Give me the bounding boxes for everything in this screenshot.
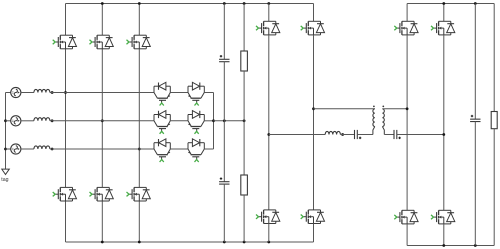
node source B common — [4, 119, 7, 122]
wire between bidirectional switches C — [170, 148, 188, 150]
mosfet primary top 2 — [301, 21, 325, 35]
wire secondary leg 1 upper — [406, 4, 408, 22]
mosfet primary bottom 2 — [301, 210, 325, 224]
wire rectifier leg A upper — [65, 4, 67, 36]
AC source VB — [11, 116, 21, 126]
wire phase B to switch cell — [50, 120, 154, 122]
wire AC common bus — [5, 93, 7, 170]
wire rectifier leg B upper — [101, 4, 103, 36]
mosfet secondary bottom 1 — [394, 210, 418, 224]
wire secondary leg 1 middle — [406, 35, 408, 210]
mosfet secondary top 1 — [394, 21, 418, 35]
inductor LA — [34, 89, 50, 92]
wire phase A to midpoint bus — [204, 92, 213, 94]
wire transformer to secondary cap — [384, 134, 394, 136]
wire secondary leg 2 middle — [443, 35, 445, 210]
igbt-diode bidirectional switch SC1 — [154, 139, 170, 162]
node top bus leg B — [101, 2, 104, 5]
wire source C to inductor — [21, 148, 34, 150]
wire primary leg 1 middle — [268, 35, 270, 210]
inductor LB — [34, 118, 50, 121]
wire source B to inductor — [21, 120, 34, 122]
wire rectifier leg C upper — [138, 4, 140, 36]
node bottom bus leg C — [138, 241, 141, 244]
node primary leg 1 tank tap — [267, 133, 270, 136]
capacitor tank primary Cr1 — [355, 130, 362, 139]
node top bus DC resistor branch — [243, 2, 246, 5]
resistor R2 DC link lower — [241, 175, 248, 195]
wire rectifier leg A lower — [65, 201, 67, 242]
wire DC cap branch to midpoint — [223, 62, 225, 121]
wire phase C to midpoint bus — [204, 148, 213, 150]
svg-text:tag: tag — [1, 177, 8, 183]
wire tank bottom primary — [269, 134, 325, 136]
node inductor LA output — [51, 91, 54, 94]
mosfet Q4 bottom leg A — [53, 187, 77, 201]
wire primary leg 2 upper — [313, 4, 315, 22]
inductor tank Lr — [325, 131, 340, 134]
wire rectifier leg B lower — [101, 201, 103, 242]
wire between bidirectional switches A — [170, 92, 188, 94]
node phase B to leg B — [101, 119, 104, 122]
node midpoint cap branch — [223, 119, 226, 122]
node bottom bus primary leg 1 — [267, 241, 270, 244]
wire phase B to midpoint bus — [204, 120, 213, 122]
node secondary top bus leg 2 — [442, 2, 445, 5]
mosfet Q5 bottom leg B — [90, 187, 114, 201]
node midpoint common — [212, 119, 215, 122]
wire DC resistor branch to bottom bus — [243, 195, 245, 242]
wire tank inductor to cap — [340, 134, 354, 136]
wire rectifier leg C lower — [138, 201, 140, 242]
wire tank top primary — [314, 108, 375, 110]
wire primary leg 1 lower — [268, 224, 270, 243]
transformer — [373, 106, 384, 135]
igbt-diode bidirectional switch SA1 — [154, 82, 170, 105]
node secondary leg 1 tank tap — [406, 107, 409, 110]
wire primary leg 2 lower — [313, 224, 315, 243]
wire phase A to switch cell — [50, 92, 154, 94]
mosfet Q2 top leg B — [90, 35, 114, 49]
node secondary bottom bus cap branch — [474, 244, 477, 247]
wire between bidirectional switches B — [170, 120, 188, 122]
node primary leg 2 tank tap — [312, 107, 315, 110]
capacitor C2 DC link lower — [219, 177, 229, 184]
wire secondary leg 1 lower — [406, 224, 408, 246]
wire midpoint to DC link — [214, 120, 245, 122]
wire load resistor upper — [493, 4, 495, 112]
resistor R1 DC link upper — [241, 51, 248, 71]
wire load resistor lower — [493, 129, 495, 246]
resistor load Ro — [491, 112, 497, 129]
wire DC resistor branch to midpoint — [243, 71, 245, 121]
igbt-diode bidirectional switch SA2 — [188, 82, 204, 105]
igbt-diode bidirectional switch SB2 — [188, 111, 204, 134]
wire primary leg 2 middle — [313, 35, 315, 210]
wire top bus (secondary bridge) — [407, 3, 494, 5]
wire DC resistor branch upper — [243, 4, 245, 52]
wire tank bottom secondary — [397, 134, 444, 136]
capacitor output Co — [470, 115, 480, 122]
node phase C to leg C — [138, 148, 141, 151]
wire source C left lead — [6, 148, 11, 150]
node source C common — [4, 148, 7, 151]
wire DC cap branch to bottom bus — [223, 184, 225, 242]
wire source B left lead — [6, 120, 11, 122]
mosfet Q3 top leg C — [127, 35, 151, 49]
igbt-diode bidirectional switch SC2 — [188, 139, 204, 162]
node top bus leg C — [138, 2, 141, 5]
wire rectifier leg B middle — [101, 49, 103, 188]
ground — [2, 169, 10, 174]
wire output cap upper — [474, 4, 476, 120]
wire rectifier leg A middle — [65, 49, 67, 188]
wire tank top secondary — [382, 108, 407, 110]
wire midpoint common vertical — [213, 93, 215, 150]
node bottom bus DC cap branch — [223, 241, 226, 244]
igbt-diode bidirectional switch SB1 — [154, 111, 170, 134]
inductor LC — [34, 146, 50, 149]
mosfet secondary top 2 — [431, 21, 455, 35]
wire DC cap branch upper — [223, 4, 225, 60]
node midpoint resistor branch — [243, 119, 246, 122]
wire rectifier leg C middle — [138, 49, 140, 188]
wire source A to inductor — [21, 92, 34, 94]
node secondary leg 2 tank tap — [442, 133, 445, 136]
mosfet Q1 top leg A — [53, 35, 77, 49]
wire primary leg 1 upper — [268, 4, 270, 22]
node inductor LB output — [51, 119, 54, 122]
capacitor tank secondary Cr2 — [394, 130, 401, 139]
wire top DC bus (rectifier + primary bridge) — [66, 3, 314, 5]
mosfet Q6 bottom leg C — [127, 187, 151, 201]
wire bottom bus (secondary bridge) — [407, 245, 494, 247]
wire DC resistor branch lower — [243, 121, 245, 175]
AC source VA — [11, 87, 21, 97]
node top bus primary leg 1 — [267, 2, 270, 5]
mosfet secondary bottom 2 — [431, 210, 455, 224]
mosfet primary bottom 1 — [256, 210, 280, 224]
wire source A left lead — [6, 92, 11, 94]
node bottom bus leg B — [101, 241, 104, 244]
wire bottom DC bus (rectifier + primary bridge) — [66, 241, 314, 243]
wire secondary leg 2 lower — [443, 224, 445, 246]
node top bus DC cap branch — [223, 2, 226, 5]
wire phase C to switch cell — [50, 148, 154, 150]
mosfet primary top 1 — [256, 21, 280, 35]
node phase A to leg A — [64, 91, 67, 94]
node secondary top bus cap branch — [474, 2, 477, 5]
wire tank cap to transformer — [357, 134, 373, 136]
wire output cap lower — [474, 122, 476, 246]
AC source VC — [11, 144, 21, 154]
wire secondary leg 2 upper — [443, 4, 445, 22]
wire DC cap branch lower — [223, 121, 225, 182]
capacitor C1 DC link upper — [219, 55, 229, 62]
node bottom bus DC resistor branch — [243, 241, 246, 244]
node secondary bottom bus leg 2 — [442, 244, 445, 247]
node tank inductor output — [341, 133, 344, 136]
node inductor LC output — [51, 148, 54, 151]
